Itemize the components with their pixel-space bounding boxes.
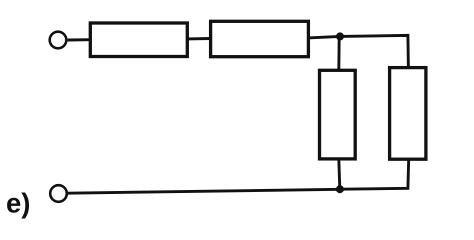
resistor R2 (right series resistor) (211, 21, 309, 56)
wire node A down to R3 (337, 36, 340, 71)
resistor R1 (left series resistor) (90, 23, 187, 57)
svg-text:e): e) (6, 188, 30, 219)
wire T1 to R1 (68, 38, 91, 41)
wire R3 to node B (339, 159, 340, 190)
wire node B to bottom-right corner up to R4 (340, 159, 409, 189)
wire R2 to node A (308, 36, 340, 38)
node B (bottom junction dot) (336, 185, 344, 193)
resistor R3 (left parallel resistor, vertical) (320, 70, 356, 159)
resistor R4 (right parallel resistor, vertical) (390, 68, 426, 160)
wire node A to top-right corner down to R4 (340, 35, 408, 69)
terminal T2 (bottom-left input terminal) (50, 185, 67, 202)
wire R1 to R2 (187, 37, 211, 40)
terminal T1 (top-left input terminal) (50, 32, 67, 49)
node A (top junction dot) (336, 32, 344, 40)
wire T2 to node B (bottom return wire) (68, 189, 340, 193)
